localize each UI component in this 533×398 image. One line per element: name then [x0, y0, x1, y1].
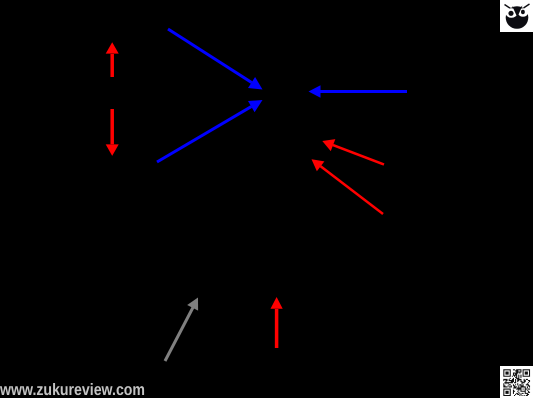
- gray arrow: [165, 298, 198, 362]
- owl face white: [506, 8, 518, 18]
- red arrow upper right: [322, 139, 384, 164]
- red vertical arrow bottom: [271, 297, 283, 348]
- svg-text:www.zukureview.com: www.zukureview.com: [0, 381, 145, 398]
- blue diagonal arrow lower: [157, 100, 263, 162]
- blue horizontal arrow: [309, 85, 408, 98]
- QR code box bottom right: [500, 366, 533, 398]
- red down arrow (left): [106, 109, 119, 156]
- red up arrow (left): [106, 42, 119, 77]
- owl head: [506, 6, 529, 29]
- owl pupils: [508, 11, 513, 16]
- owl brow V: [512, 6, 522, 18]
- owl logo box top right: [500, 0, 533, 32]
- owl ear tufts: [505, 5, 511, 9]
- red arrow lower right: [312, 159, 384, 214]
- blue diagonal arrow upper: [168, 29, 263, 90]
